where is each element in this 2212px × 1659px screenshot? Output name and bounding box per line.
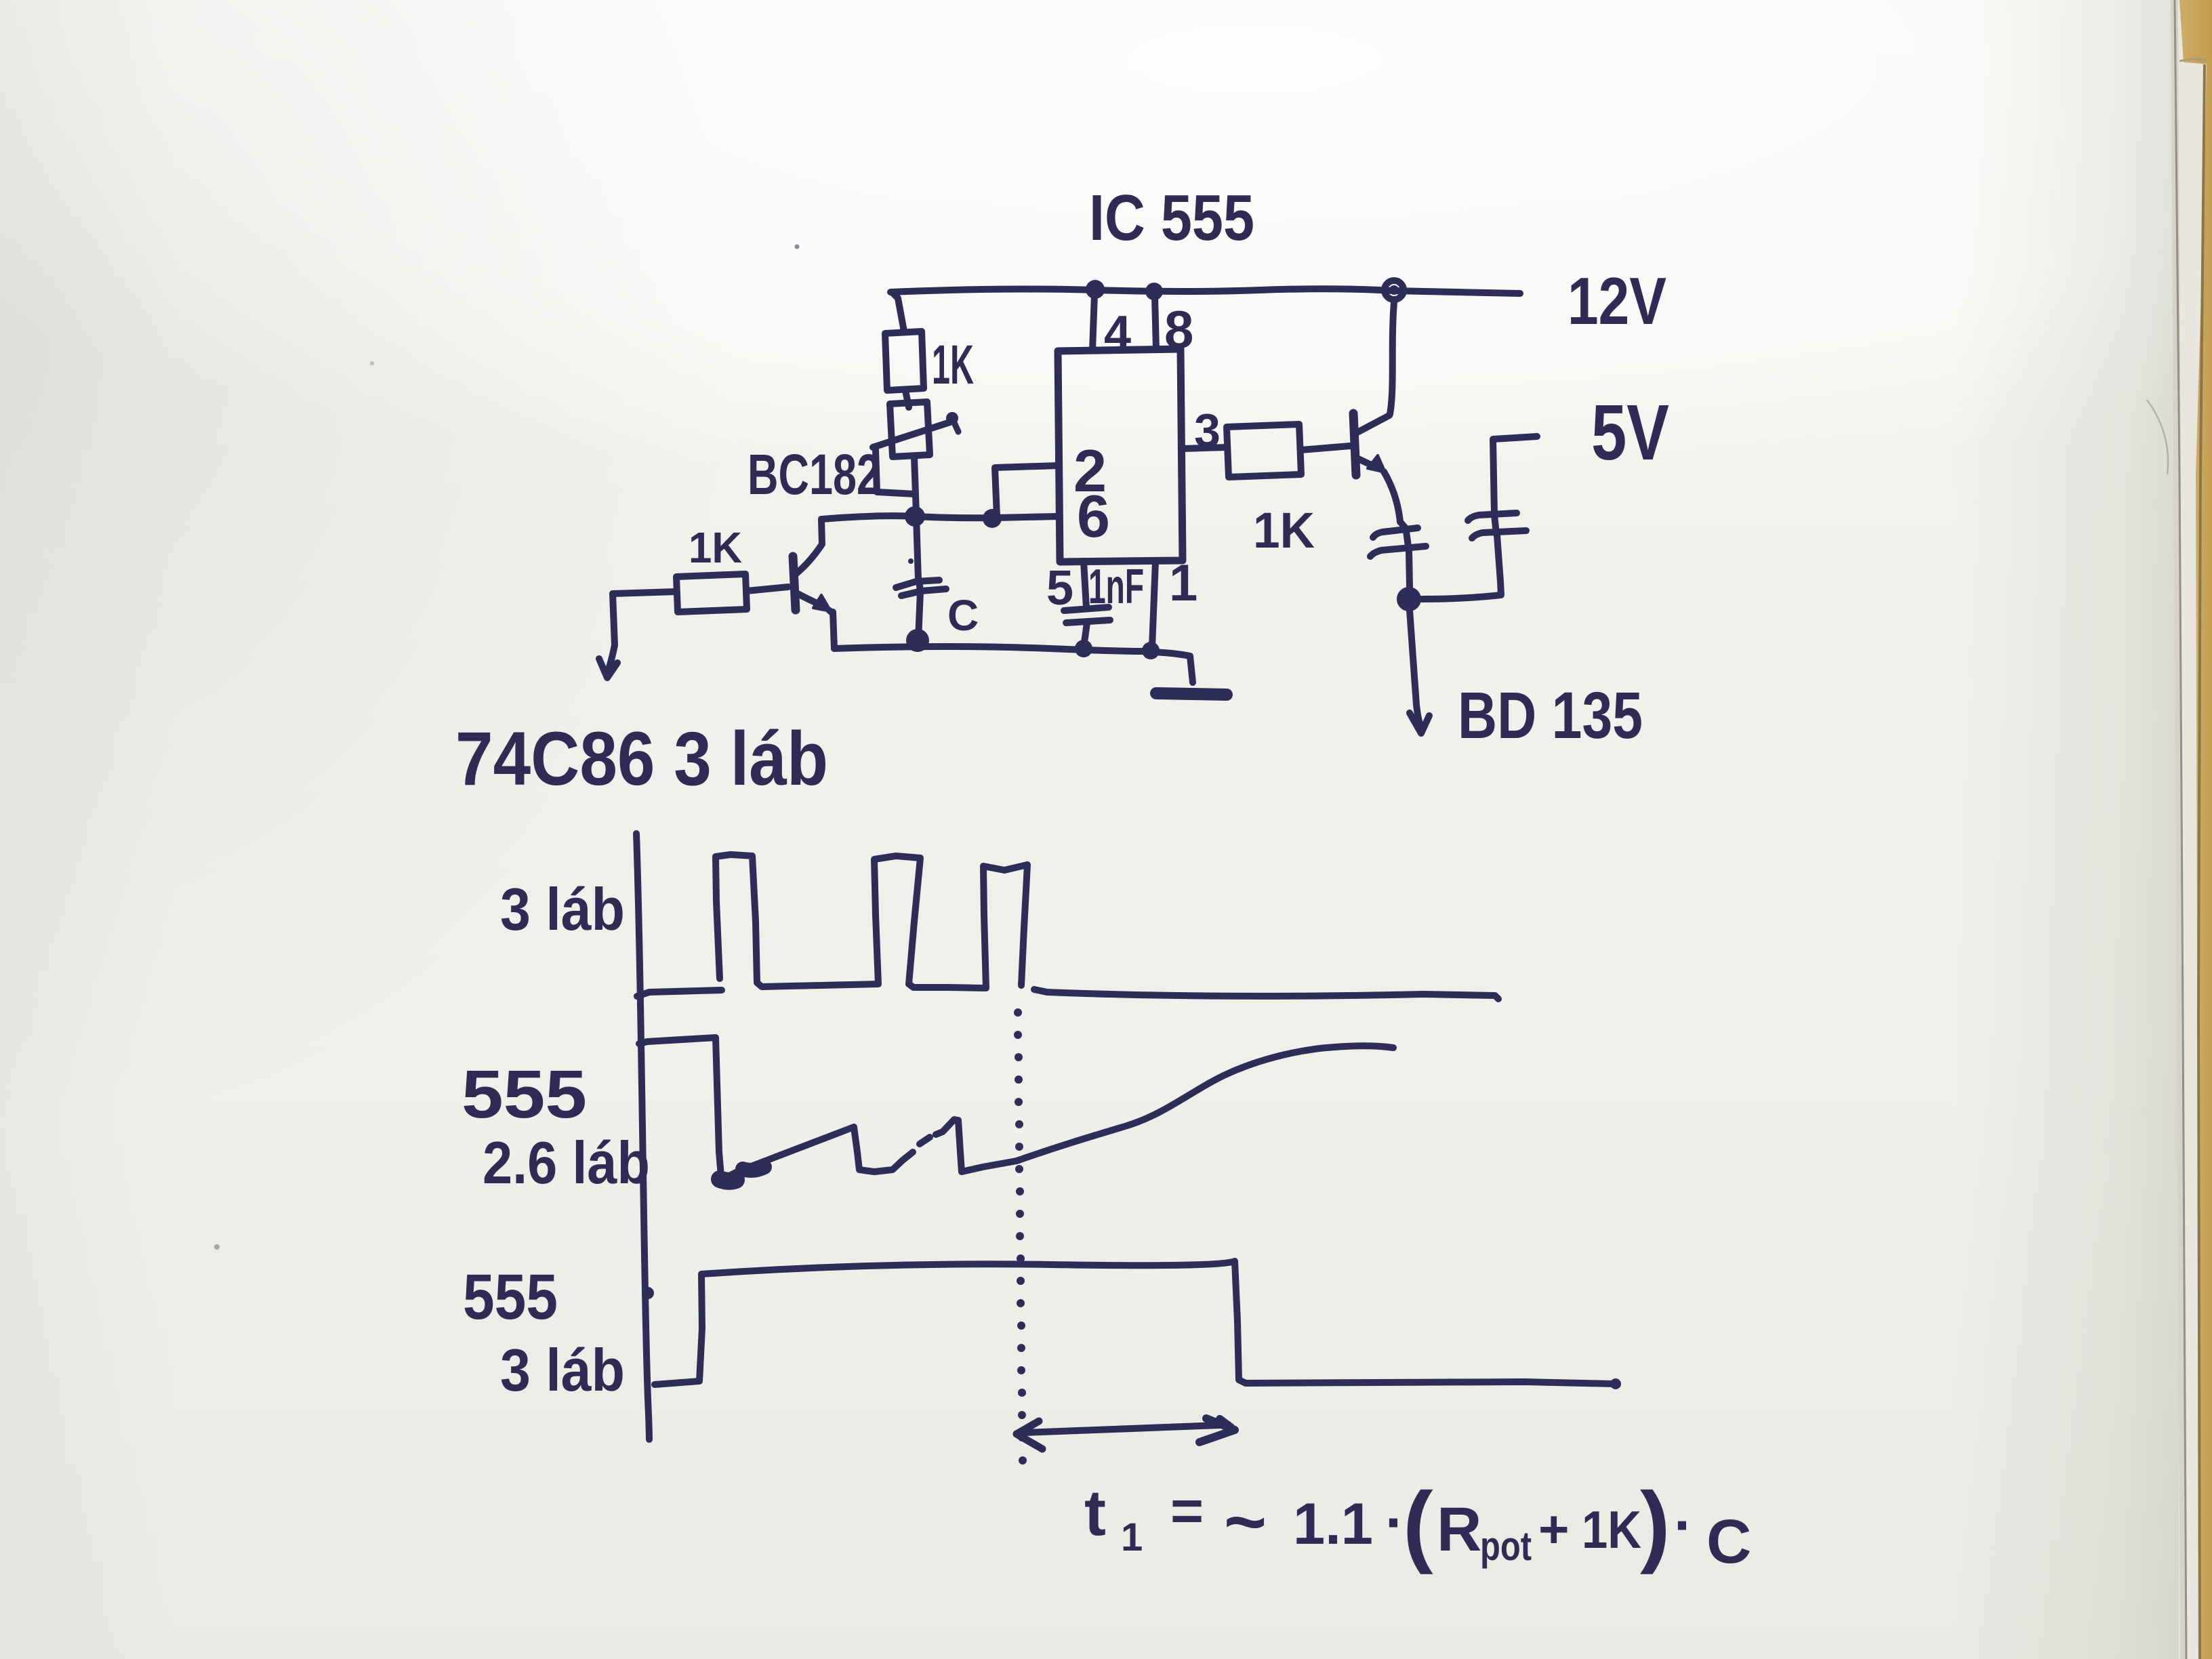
wire BD135 output arrow — [1410, 610, 1420, 724]
pin number 8 — [1164, 300, 1193, 359]
dotted timing marker line — [1014, 1008, 1027, 1465]
t1 span arrow — [1025, 1425, 1220, 1433]
svg-text:1: 1 — [1169, 554, 1197, 612]
right tan board edge — [2179, 0, 2212, 64]
svg-text:C: C — [1706, 1507, 1751, 1576]
svg-text:+: + — [1538, 1499, 1570, 1559]
op-amp U1 IC555 box — [1058, 349, 1183, 562]
svg-text:8: 8 — [1164, 300, 1193, 359]
svg-text:BD 135: BD 135 — [1458, 678, 1643, 752]
svg-text:1K: 1K — [932, 334, 974, 396]
junction pin1 bottom — [1142, 642, 1160, 659]
right page edge: underlying sheet sliver — [2176, 0, 2212, 1659]
transistor Q2 emitter + arrow — [795, 592, 825, 607]
capacitor C plates — [896, 580, 939, 588]
transistor Q1 emitter + arrow — [1355, 457, 1380, 469]
value label 1K (R3) — [1253, 502, 1315, 558]
node rail junction 4 — [1086, 280, 1105, 299]
pin number 5 — [1046, 561, 1073, 615]
svg-text:1: 1 — [1121, 1515, 1143, 1559]
pin number 2 — [1073, 437, 1107, 504]
value label C — [947, 591, 979, 640]
wire pin 3 to R3 — [1183, 447, 1227, 449]
pin 4 lead — [1092, 294, 1094, 350]
pin number 3 — [1194, 404, 1221, 457]
transistor Q2 base bar — [793, 556, 796, 610]
zener D2 — [1468, 513, 1517, 520]
transistor Q1 base bar — [1353, 413, 1356, 475]
svg-text:C: C — [947, 591, 979, 640]
pin number 4 — [1104, 306, 1131, 361]
pin number 1 — [1169, 554, 1197, 612]
svg-text:pot: pot — [1480, 1523, 1532, 1569]
potentiometer Rpot body — [890, 402, 930, 457]
label 5V — [1591, 388, 1669, 476]
svg-text:): ) — [1640, 1474, 1671, 1575]
svg-text:3 láb: 3 láb — [500, 1336, 625, 1404]
svg-text:555: 555 — [462, 1057, 587, 1132]
wire R2 left lead — [613, 592, 676, 594]
transistor Q2 base wire — [747, 587, 788, 591]
wire R3 to Q1 base — [1301, 446, 1350, 450]
main page edge band — [2171, 0, 2187, 1659]
svg-text:12V: 12V — [1568, 264, 1666, 338]
label 555 (waveform 3) — [463, 1261, 558, 1333]
value label 1K (R2) — [689, 523, 742, 572]
capacitor 1nF lead — [1084, 561, 1086, 608]
formula t1 = ~1.1 (Rpot+1K) C — [1084, 1474, 1751, 1576]
pin 1 lead — [1152, 561, 1155, 647]
waveform 2: 555 pins 2,6 sawtooth — [639, 1038, 721, 1176]
svg-text:74C86 3 láb: 74C86 3 láb — [455, 716, 828, 801]
waveform 1: 74C86 pin 3 pulses — [637, 990, 722, 996]
svg-text:555: 555 — [463, 1261, 558, 1333]
wire rail to Q1 collector — [1390, 302, 1394, 414]
capacitor 1nF plates — [1064, 607, 1109, 611]
wire output drop to 74C86 — [609, 594, 615, 670]
label 2.6 lab — [483, 1129, 650, 1196]
ground — [1151, 652, 1193, 682]
BC182 bracket stroke — [876, 449, 915, 494]
title IC 555 — [1089, 182, 1254, 254]
svg-text:R: R — [1437, 1495, 1481, 1564]
wire 5V hook — [1493, 436, 1537, 514]
junction node row B — [983, 509, 1002, 528]
node rail junction 8 — [1145, 283, 1163, 300]
resistor R2 1K (left) — [676, 574, 747, 612]
svg-text:4: 4 — [1104, 306, 1131, 361]
wire pot to node row — [914, 457, 916, 514]
svg-text:~: ~ — [1224, 1480, 1267, 1562]
potentiometer arrow — [873, 422, 950, 447]
svg-text:·: · — [1385, 1490, 1405, 1555]
resistor R1 1K (vertical) — [885, 331, 924, 390]
wire bottom ground bus — [834, 647, 1151, 651]
svg-text:BC182: BC182 — [747, 443, 880, 506]
junction D1 bottom — [1397, 587, 1421, 611]
svg-text:6: 6 — [1077, 483, 1110, 550]
timing axis — [636, 834, 649, 1439]
label 74C86 3 lab — [455, 716, 828, 801]
svg-text:1K: 1K — [1253, 502, 1315, 558]
wire step to pin 2 — [995, 466, 1058, 516]
value label 1K (R1) — [932, 334, 974, 396]
svg-text:(: ( — [1403, 1474, 1433, 1575]
wire D2 to junction — [1422, 515, 1501, 599]
label 555 (waveform 2) — [462, 1057, 587, 1132]
value label 1nF — [1088, 560, 1144, 614]
pin number 6 — [1077, 483, 1110, 550]
label BC182 — [747, 443, 880, 506]
label 3 lab (waveform 1) — [500, 876, 625, 943]
capacitor C lower lead — [918, 592, 920, 640]
svg-text:t: t — [1084, 1477, 1106, 1549]
paper specks — [795, 245, 800, 249]
transistor Q2 collector — [795, 519, 822, 575]
resistor R3 1K (right) — [1227, 424, 1301, 477]
svg-text:1K: 1K — [689, 523, 742, 572]
wire rail to R1 — [892, 292, 904, 331]
svg-text:1.1: 1.1 — [1293, 1492, 1373, 1557]
pin 8 lead — [1155, 296, 1156, 350]
svg-text:5V: 5V — [1591, 388, 1669, 476]
svg-text:IC 555: IC 555 — [1089, 182, 1254, 254]
label 3 lab (waveform 3) — [500, 1336, 625, 1404]
wire 12V power rail — [890, 289, 1520, 293]
wire node row (pins 2,6 tie) — [823, 516, 1058, 519]
junction node row A — [905, 506, 925, 527]
junction 1nF bottom — [1075, 640, 1092, 657]
zener D1 — [1373, 528, 1418, 537]
node rail junction collector (circled) — [1385, 281, 1404, 300]
transistor Q1 collector — [1355, 415, 1389, 434]
svg-text:2.6 láb: 2.6 láb — [483, 1129, 650, 1196]
svg-text:=: = — [1170, 1479, 1204, 1542]
wire R1 to pot — [905, 390, 909, 407]
capacitor C lead — [916, 516, 918, 580]
svg-text:3 láb: 3 láb — [500, 876, 625, 943]
waveform 3: 555 pin 3 — [655, 1261, 1614, 1385]
label 12V — [1568, 264, 1666, 338]
junction C bottom — [906, 629, 929, 652]
svg-text:·: · — [1674, 1493, 1694, 1558]
svg-text:1K: 1K — [1582, 1500, 1641, 1559]
